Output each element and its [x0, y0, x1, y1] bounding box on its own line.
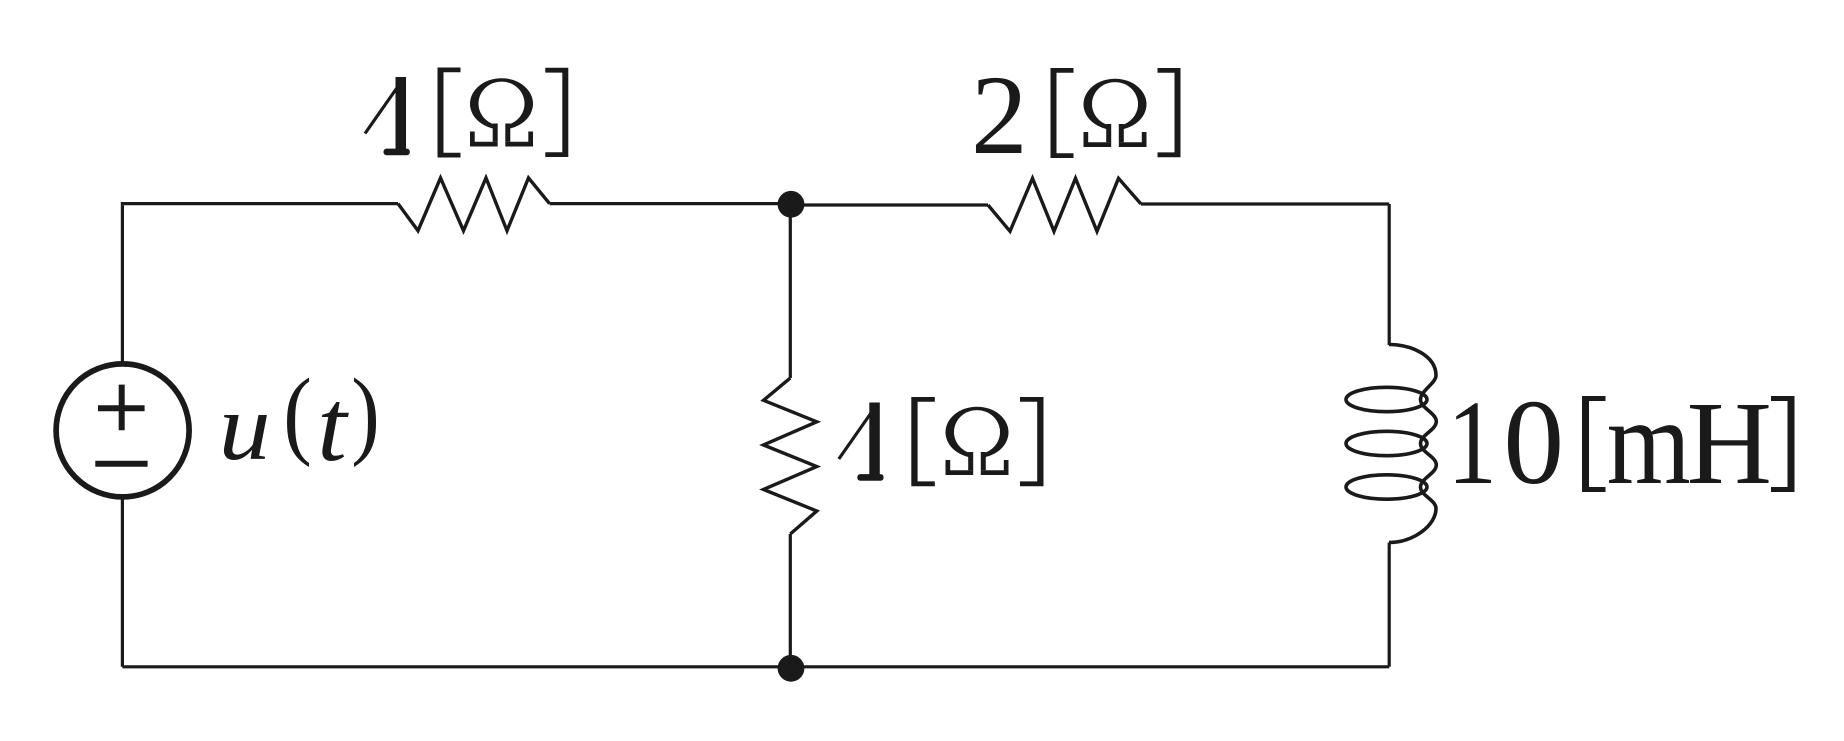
inductor L1 (cute coil, 3 loops)	[1346, 345, 1436, 543]
wire top rail right (R2 to top-right corner)	[1141, 202, 1389, 205]
resistor R3	[764, 378, 817, 534]
svg-text:u: u	[219, 374, 271, 480]
svg-text:1: 1	[1447, 375, 1497, 510]
node B junction dot (bottom)	[778, 655, 805, 682]
label R2 value: digit 2	[971, 52, 1028, 178]
label L1 value: 10	[1447, 375, 1564, 510]
svg-text:2: 2	[971, 52, 1028, 178]
wire left vertical top (source to top rail)	[121, 206, 124, 364]
wire right vertical top (corner to inductor L1)	[1388, 204, 1391, 345]
voltage source U1 circle	[56, 364, 189, 497]
label R1 value: close bracket	[545, 68, 568, 157]
label R1 value: omega	[470, 78, 533, 146]
wire left vertical bottom (source to bottom rail)	[121, 496, 124, 666]
svg-text:0: 0	[1503, 376, 1564, 510]
svg-text:m: m	[1607, 375, 1691, 511]
resistor R1	[398, 178, 550, 231]
wire top rail left (corner to resistor R1)	[122, 204, 398, 206]
wire right vertical bottom (inductor to bottom rail)	[1388, 543, 1391, 667]
label R3 value: close bracket	[1020, 397, 1044, 486]
wire bottom rail	[122, 665, 1389, 668]
voltage source U1 minus sign	[95, 461, 147, 467]
label R3 value: open bracket	[911, 397, 935, 486]
wire top rail right of node A (to resistor R2)	[791, 203, 988, 206]
label R1 value: digit 1	[365, 77, 410, 155]
label L1 value: mH	[1607, 375, 1772, 511]
svg-text:(: (	[283, 359, 312, 468]
svg-text:): )	[351, 359, 380, 468]
label R1 value: open bracket	[438, 68, 461, 158]
resistor R2	[988, 178, 1141, 231]
wire middle vertical bottom (R3 to node B)	[789, 534, 792, 667]
svg-text:H: H	[1687, 377, 1772, 510]
label source value u(t): open paren	[283, 359, 312, 468]
wire middle vertical top (node A to resistor R3)	[789, 204, 792, 378]
label source value u(t): letter t	[317, 368, 349, 482]
label L1 value: open bracket	[1582, 396, 1606, 492]
label source value u(t): letter u	[219, 374, 271, 480]
label source value u(t): close paren	[351, 359, 380, 468]
label R2 value: omega	[1084, 79, 1147, 147]
wire top rail middle (R1 to node A)	[550, 202, 791, 205]
label R2 value: close bracket	[1158, 68, 1181, 157]
node A junction dot (top)	[778, 191, 805, 218]
voltage source U1 plus sign	[98, 385, 145, 431]
svg-text:t: t	[317, 368, 349, 482]
label R3 value: digit 1	[839, 403, 884, 481]
label L1 value: close bracket	[1771, 396, 1795, 492]
label R2 value: open bracket	[1051, 68, 1074, 158]
label R3 value: omega	[946, 407, 1009, 475]
